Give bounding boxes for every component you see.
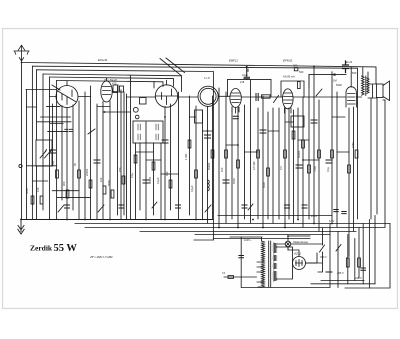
wire switch right xyxy=(306,228,325,272)
capacitor C5 xyxy=(205,135,211,138)
capacitor power xyxy=(361,268,366,270)
svg-text:EBF11: EBF11 xyxy=(229,59,238,63)
tiny labels xyxy=(25,58,362,280)
wire rectifier connects xyxy=(277,247,318,279)
antenna xyxy=(14,45,29,62)
tube EBF11 T5 xyxy=(230,89,241,108)
wire loop around T5 xyxy=(228,79,272,96)
svg-text:500: 500 xyxy=(299,70,304,74)
capacitor C14 xyxy=(285,205,290,208)
resistor R21 xyxy=(292,131,295,139)
capacitor C8 xyxy=(260,130,266,133)
svg-text:250: 250 xyxy=(118,167,122,172)
svg-text:AZ11: AZ11 xyxy=(293,252,301,256)
switch contacts bottom xyxy=(52,85,322,212)
resistor R27 xyxy=(355,150,358,158)
svg-text:5000: 5000 xyxy=(336,83,342,87)
svg-text:1 MΩ: 1 MΩ xyxy=(184,154,188,160)
svg-text:EFM11: EFM11 xyxy=(283,59,293,63)
resistor R4 xyxy=(66,190,69,198)
svg-text:20000: 20000 xyxy=(85,168,89,176)
svg-text:50000: 50000 xyxy=(297,150,301,158)
svg-text:0,1µ: 0,1µ xyxy=(51,160,55,166)
wire T6 pin stubs xyxy=(285,108,292,113)
svg-text:500: 500 xyxy=(352,71,357,75)
svg-text:AN 80 mA: AN 80 mA xyxy=(283,75,295,79)
resistor R20 xyxy=(284,150,287,158)
wire verticals right column xyxy=(332,72,385,257)
resistor R5 xyxy=(78,170,81,178)
tube oscillator triode T2 xyxy=(101,78,112,102)
capacitor C17 xyxy=(65,205,70,208)
capacitor C12 xyxy=(176,205,181,208)
svg-text:ECH11: ECH11 xyxy=(98,58,108,62)
wire avc stub xyxy=(26,89,56,91)
svg-text:245 V: 245 V xyxy=(355,276,362,280)
cathode box at T6 xyxy=(291,116,304,127)
osc bandfilter boxes xyxy=(113,85,118,93)
wire verticals T4 column xyxy=(190,88,220,227)
power transformer xyxy=(262,241,277,287)
wire verticals T5 column xyxy=(226,80,251,227)
svg-text:7000: 7000 xyxy=(313,166,317,172)
wire top bus H2 xyxy=(32,66,357,104)
resistor R9 xyxy=(122,176,125,184)
wire bus2 xyxy=(75,223,390,225)
capacitor C6 xyxy=(223,180,229,183)
svg-text:110V~: 110V~ xyxy=(244,238,252,242)
fuse 7A xyxy=(228,276,234,279)
tube EFM11 T6 xyxy=(283,89,294,109)
wire verticals T1 column xyxy=(53,86,91,219)
tube EL11 T7 xyxy=(346,67,356,107)
potentiometer arrows in box xyxy=(40,150,52,159)
wire bus stubs xyxy=(213,216,332,241)
wire tube row horizontals xyxy=(50,92,362,98)
svg-text:Skalenlampe: Skalenlampe xyxy=(293,240,309,244)
resistor R13 xyxy=(188,140,191,148)
resistor R3 xyxy=(56,170,59,178)
wire verticals far left xyxy=(22,63,57,220)
resistor R22 xyxy=(302,140,305,148)
resistor R25 xyxy=(331,150,334,158)
wire verticals T2 column xyxy=(97,76,131,219)
capacitor C1 xyxy=(50,150,56,153)
wire left stub bottom xyxy=(194,239,213,241)
rectifier AZ11 xyxy=(293,257,306,270)
resistor R14 xyxy=(195,170,198,178)
transformer taps xyxy=(257,262,262,287)
wire verticals T3 column xyxy=(161,92,179,219)
small box left (volume control) xyxy=(36,140,52,166)
resistor R1 xyxy=(31,196,34,204)
scan speckle top xyxy=(40,34,370,307)
tube ECH11 T1 xyxy=(56,81,78,108)
wire mid horizontal segments xyxy=(27,106,350,197)
capacitor C2 xyxy=(94,160,100,163)
ground symbol xyxy=(18,219,24,234)
switch diag at T6 right xyxy=(274,96,279,103)
resistor R23 xyxy=(308,165,311,173)
resistor R11 xyxy=(152,162,155,170)
resistor power2 xyxy=(358,258,361,267)
resistor between T5 T6 xyxy=(262,95,271,98)
capacitor C11 xyxy=(326,160,332,163)
svg-text:300: 300 xyxy=(165,171,169,176)
output transformer xyxy=(362,68,370,96)
capacitor C7 xyxy=(244,67,250,80)
capacitor pair under T1 xyxy=(65,129,72,131)
resistor R7 xyxy=(103,186,106,194)
wire T5 pin stubs xyxy=(232,107,239,113)
svg-text:5000: 5000 xyxy=(25,188,29,194)
resistor R6 xyxy=(89,180,92,188)
wire verticals gap xyxy=(258,96,263,227)
svg-text:470: 470 xyxy=(112,82,117,86)
svg-text:Osz. Bandf.: Osz. Bandf. xyxy=(104,78,118,82)
wire verticals IF box column xyxy=(136,122,154,219)
capacitor C10 xyxy=(311,120,317,123)
svg-text:250 V: 250 V xyxy=(320,255,327,259)
resistors vertical small xyxy=(31,131,358,204)
wire loop around T6 xyxy=(281,81,304,97)
capacitors small xyxy=(50,67,333,208)
resistor R24 xyxy=(318,150,321,158)
svg-text:240V: 240V xyxy=(311,214,317,218)
resistor R16 xyxy=(225,150,228,158)
svg-text:4 x 8: 4 x 8 xyxy=(204,76,210,80)
IF coil symbols in box xyxy=(138,124,158,140)
capacitor 500pF top right xyxy=(343,61,349,73)
wire bus4 xyxy=(140,231,356,233)
svg-text:0,3: 0,3 xyxy=(279,166,283,170)
wire hv right xyxy=(338,216,375,289)
cap 500 under line xyxy=(294,68,298,71)
svg-text:55 W: 55 W xyxy=(54,243,78,254)
resistor R10 xyxy=(134,155,137,163)
coil small mid xyxy=(208,180,210,191)
IF bandfilter box xyxy=(133,121,163,143)
svg-text:265 V: 265 V xyxy=(337,271,344,275)
svg-text:Zerdik: Zerdik xyxy=(30,244,53,253)
resistor R8 xyxy=(111,190,114,198)
small box below T4 xyxy=(195,110,203,123)
junction sq xyxy=(333,74,335,76)
capacitor C3 xyxy=(143,180,149,183)
svg-text:5000: 5000 xyxy=(262,182,266,188)
tuning capacitor drum T4 xyxy=(198,86,218,106)
svg-text:7A: 7A xyxy=(222,271,225,275)
small box left of T3 xyxy=(140,98,147,105)
svg-text:100: 100 xyxy=(99,177,103,182)
svg-text:0,5 MΩ: 0,5 MΩ xyxy=(252,162,256,170)
wire bus drop x154 xyxy=(153,82,155,89)
switch diag right2 xyxy=(336,245,341,252)
wire top bus H5 xyxy=(50,77,174,86)
tube EF T3 xyxy=(155,80,177,107)
wire top bus H3 xyxy=(37,70,214,219)
wire top bus H1 xyxy=(22,63,377,85)
wire speaker connects xyxy=(368,84,385,100)
wire diagonal feeds T3 xyxy=(160,58,185,76)
resistor R26 xyxy=(348,165,351,173)
capacitor C15 xyxy=(302,205,307,208)
svg-text:1350: 1350 xyxy=(351,142,355,148)
resistor R12 xyxy=(169,180,172,188)
svg-text:100: 100 xyxy=(36,187,40,192)
svg-text:0,1µ: 0,1µ xyxy=(130,172,134,178)
wire ground bus xyxy=(21,219,213,221)
dial lamp xyxy=(285,241,291,247)
wire top bus H4 xyxy=(43,74,182,92)
wire top bus H6 xyxy=(57,81,163,87)
svg-text:6,3V: 6,3V xyxy=(329,219,335,223)
resistor R17 xyxy=(237,160,240,168)
wire hv horizontals xyxy=(311,224,390,289)
wire verticals T6 column xyxy=(268,66,319,231)
terminal left xyxy=(19,164,22,167)
capacitor C4 xyxy=(162,140,168,143)
svg-text:100: 100 xyxy=(220,167,224,172)
svg-text:10µF: 10µF xyxy=(242,73,248,77)
resistor above T6 xyxy=(298,82,301,89)
svg-text:0,1µF: 0,1µF xyxy=(156,177,160,184)
svg-text:30000: 30000 xyxy=(148,176,152,184)
svg-text:5000: 5000 xyxy=(107,180,111,186)
svg-text:50000: 50000 xyxy=(207,162,211,170)
wire feed bus6 xyxy=(213,238,310,240)
caps cluster top right xyxy=(326,210,346,273)
svg-text:2x8: 2x8 xyxy=(240,80,245,84)
resistor power1 xyxy=(346,258,349,267)
svg-text:300: 300 xyxy=(62,181,66,186)
wire bus3 xyxy=(85,227,385,229)
capacitor C13 xyxy=(242,205,247,208)
wire grid line EL11 xyxy=(309,75,346,88)
trimmer circles osc xyxy=(133,107,138,112)
svg-text:5000: 5000 xyxy=(232,178,236,184)
capacitor under T5 xyxy=(233,116,238,119)
capacitor C9 xyxy=(296,165,302,168)
wire lamp connects xyxy=(277,236,323,250)
resistor R15 xyxy=(211,150,214,158)
svg-text:300: 300 xyxy=(293,64,298,68)
wire mains left xyxy=(224,224,330,288)
svg-text:1M: 1M xyxy=(333,79,337,83)
capacitor C16 xyxy=(119,205,124,208)
wire bus drop x248 xyxy=(247,69,249,72)
resistor R18 xyxy=(257,150,260,158)
capacitor mains xyxy=(239,256,244,258)
svg-text:EL11: EL11 xyxy=(346,60,353,64)
svg-text:0,1µ: 0,1µ xyxy=(326,166,330,172)
svg-text:0,1µF: 0,1µF xyxy=(190,185,194,192)
resistor R2 xyxy=(40,196,43,204)
wire feed bus5 xyxy=(195,234,330,236)
capacitor between T5 T6 xyxy=(256,94,258,101)
loudspeaker xyxy=(373,81,390,101)
resistor R19 xyxy=(267,168,270,176)
